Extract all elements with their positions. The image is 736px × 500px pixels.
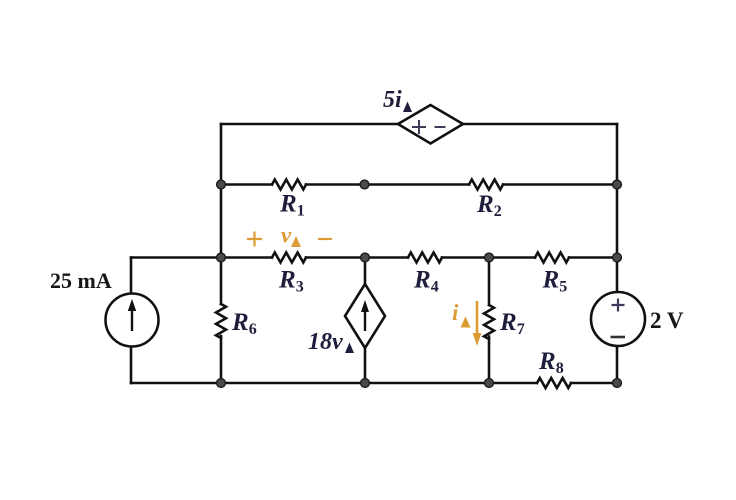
wire middle column (node to 18v source to bottom) bbox=[364, 258, 367, 384]
node row3 R4-R5 junction bbox=[485, 253, 494, 262]
resistor R5 bbox=[535, 253, 569, 263]
wire R7 column upper bbox=[488, 258, 491, 306]
wire bottom left of R8 bbox=[131, 382, 537, 385]
wire row3 between R3 and R4 bbox=[306, 256, 408, 259]
wire row3 right stub bbox=[569, 256, 617, 259]
wire row2 middle bbox=[306, 183, 469, 186]
wire row2 right bbox=[503, 183, 617, 186]
dependent voltage source U1 5iΔ (diamond) bbox=[398, 105, 463, 144]
wire left vertical lower (R6 to bottom) bbox=[220, 336, 223, 383]
current source I1 25 mA (circle) bbox=[106, 294, 159, 347]
node top-left of R1 row bbox=[217, 180, 226, 189]
node bottom x=617 bbox=[613, 379, 622, 388]
label vΔ minus sign bbox=[318, 238, 332, 240]
wire right vertical lower (2V source to bottom) bbox=[616, 346, 619, 383]
svg-text:5i: 5i bbox=[383, 87, 402, 113]
node bottom x=489 bbox=[485, 379, 494, 388]
node at R1-R2 junction bbox=[360, 180, 369, 189]
node row3 right bbox=[613, 253, 622, 262]
orange arrow iΔ (current direction, down) bbox=[476, 301, 479, 335]
V1 plus mark bbox=[612, 299, 625, 312]
wire top horizontal (node a to node c via 5i source) bbox=[221, 123, 617, 126]
U2 arrow (up) bbox=[364, 309, 366, 331]
wire row3 between R4 and R5 bbox=[442, 256, 535, 259]
resistor R7 (vertical) bbox=[484, 305, 494, 339]
V1 minus mark bbox=[611, 336, 626, 339]
resistor R8 bbox=[537, 378, 571, 388]
U1 minus terminal mark bbox=[435, 126, 446, 128]
wire row3 far-left (to 25mA branch) bbox=[131, 256, 272, 259]
voltage source V1 2 V (circle) bbox=[591, 292, 645, 346]
resistor R2 bbox=[469, 180, 503, 190]
node bottom x=221 bbox=[217, 379, 226, 388]
I1 arrow (up) bbox=[131, 308, 133, 331]
node row3 R3-R4 junction bbox=[361, 253, 370, 262]
svg-text:i: i bbox=[452, 300, 459, 325]
wire right vertical upper (x=617, top to 2V source) bbox=[616, 124, 619, 293]
wire row2 left stub bbox=[221, 183, 272, 186]
wire R7 column lower bbox=[488, 337, 491, 384]
node row3 left bbox=[217, 253, 226, 262]
label vΔ plus sign bbox=[247, 232, 262, 247]
node bottom x=365 bbox=[361, 379, 370, 388]
resistor R3 bbox=[272, 253, 306, 263]
dependent current source U2 18vΔ (diamond) bbox=[345, 284, 385, 348]
U1 plus terminal mark bbox=[412, 120, 426, 134]
wire 25mA branch vertical bbox=[130, 258, 133, 384]
svg-text:18v: 18v bbox=[308, 329, 343, 355]
wire left vertical upper (x=221, top to R6) bbox=[220, 124, 223, 304]
resistor R1 bbox=[272, 180, 306, 190]
svg-text:25 mA: 25 mA bbox=[50, 268, 112, 293]
svg-text:2 V: 2 V bbox=[650, 308, 684, 333]
wire bottom right of R8 bbox=[571, 382, 617, 385]
resistor R6 (vertical) bbox=[216, 304, 226, 338]
svg-text:v: v bbox=[281, 223, 292, 248]
resistor R4 bbox=[408, 253, 442, 263]
node top-right of R2 row bbox=[613, 180, 622, 189]
